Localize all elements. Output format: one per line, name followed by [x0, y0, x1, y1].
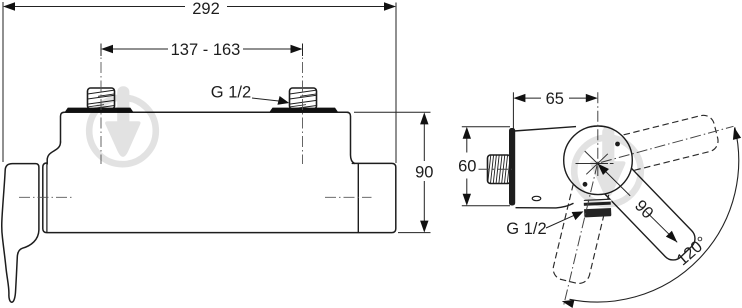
right inlet nipple front: [287, 88, 319, 115]
side body block: [514, 127, 576, 208]
shower outlet nipple dark: [583, 199, 612, 218]
svg-text:137 - 163: 137 - 163: [171, 41, 241, 59]
side inlet nipple: [488, 153, 514, 185]
centerline body axis front: [19, 44, 372, 198]
cylinder left end inner line: [46, 163, 48, 232]
upper body (backplate) front view: [61, 112, 355, 163]
right nipple centerline: [302, 44, 304, 165]
right flange: [269, 108, 338, 113]
escutcheon wall plate edge: [509, 128, 515, 206]
dimension 90 radial: [598, 164, 678, 243]
dashed handle arm upper position: [594, 113, 721, 178]
dashed handle arm lower position: [551, 156, 616, 286]
hub centerlines: [564, 92, 734, 306]
hub circle of handle: [564, 126, 633, 195]
dimension 90 front: [354, 112, 431, 232]
watermark logo left: [89, 86, 156, 164]
dimension 292: [3, 2, 396, 163]
S-curve left shoulder: [47, 142, 60, 164]
body top edge line: [64, 111, 348, 113]
svg-text:60: 60: [458, 158, 476, 176]
dimension 137 - 163: [101, 44, 303, 57]
svg-text:90: 90: [415, 163, 433, 181]
solid handle arm side view: [572, 135, 699, 265]
lower cylinder body: [43, 163, 396, 233]
dimension 60: [462, 127, 510, 206]
left inlet nipple front: [85, 88, 117, 115]
watermark logo right: [574, 126, 641, 204]
svg-text:G 1/2: G 1/2: [211, 84, 251, 102]
dimension 65: [513, 92, 588, 128]
right cap inner line: [357, 164, 359, 233]
lever handle head and arm: [2, 164, 39, 303]
left nipple centerline: [100, 44, 102, 165]
side inlet centerline: [479, 168, 513, 170]
svg-text:G 1/2: G 1/2: [506, 220, 546, 238]
svg-text:65: 65: [546, 90, 564, 108]
small oval screw on body: [532, 196, 541, 200]
left flange: [65, 108, 134, 113]
120 degree arc: [570, 127, 739, 302]
screw dots: [615, 142, 620, 147]
svg-text:292: 292: [192, 0, 220, 18]
